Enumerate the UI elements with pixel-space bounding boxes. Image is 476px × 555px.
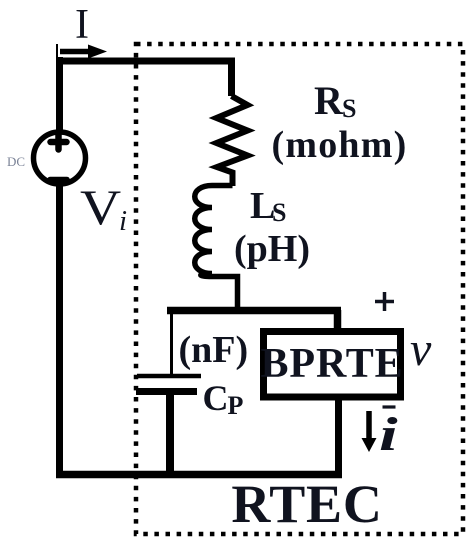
dotted box RTEC boundary xyxy=(136,44,463,534)
svg-text:i: i xyxy=(379,407,398,460)
wire left (source top lead) xyxy=(56,57,63,133)
svg-text:I: I xyxy=(75,2,89,48)
wire top bus xyxy=(56,61,232,96)
wire bus to BPRTE xyxy=(334,310,342,332)
svg-text:C: C xyxy=(203,378,229,418)
svg-text:R: R xyxy=(314,78,344,123)
svg-text:S: S xyxy=(272,198,286,227)
wire inner top bus xyxy=(167,307,341,315)
wire capacitor to bottom bus xyxy=(166,391,174,477)
capacitor CP bottom plate xyxy=(136,388,197,395)
current arrow i xyxy=(362,411,377,452)
capacitor CP top plate xyxy=(137,374,201,379)
wire left (source bottom lead) xyxy=(56,186,63,479)
resistor RS zigzag xyxy=(217,96,248,186)
wire thin connector to capacitor xyxy=(170,308,173,376)
DC source V1 circle xyxy=(34,132,86,184)
minus polarity mark xyxy=(383,405,396,408)
wire bottom bus xyxy=(56,471,342,479)
svg-text:RTEC: RTEC xyxy=(231,474,382,534)
svg-text:S: S xyxy=(342,94,356,123)
minus mark inside source xyxy=(50,177,67,183)
svg-text:v: v xyxy=(410,323,432,376)
svg-text:(nF): (nF) xyxy=(179,329,249,371)
inductor LS xyxy=(195,186,238,312)
wire BPRTE to bottom bus xyxy=(335,397,342,477)
plus mark inside source xyxy=(51,135,67,150)
svg-text:P: P xyxy=(228,391,244,420)
svg-text:i: i xyxy=(119,205,127,237)
svg-text:(pH): (pH) xyxy=(234,228,310,270)
plus polarity mark xyxy=(375,292,394,311)
svg-text:V: V xyxy=(80,179,121,235)
current arrow I xyxy=(57,44,107,59)
svg-text:(mohm): (mohm) xyxy=(272,124,408,166)
svg-text:DC: DC xyxy=(7,154,25,169)
BPRTE box xyxy=(264,332,401,398)
svg-text:BPRTE: BPRTE xyxy=(260,341,403,387)
